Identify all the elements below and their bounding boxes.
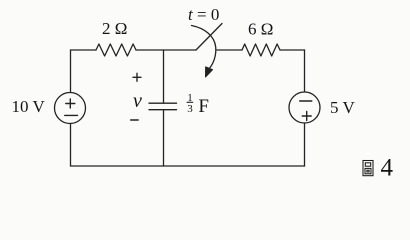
5V minus sign — [300, 100, 312, 102]
wire middle branch lower — [163, 110, 165, 166]
wire right rail lower — [304, 123, 306, 166]
wire top-right segment — [280, 49, 305, 51]
svg-text:3: 3 — [187, 103, 193, 115]
voltage source 5V circle — [289, 92, 320, 123]
capacitor minus polarity mark — [131, 119, 139, 121]
wire top-left segment — [71, 49, 97, 51]
wire switch to 6ohm — [217, 49, 242, 51]
switch blade t=0 — [196, 24, 222, 51]
svg-text:2 Ω: 2 Ω — [102, 19, 127, 38]
figure label CJK tu (drawn) — [363, 161, 373, 176]
svg-text:5 V: 5 V — [330, 98, 355, 117]
resistor R 6ohm — [242, 44, 280, 56]
switch arrowhead — [206, 67, 213, 77]
svg-text:10 V: 10 V — [12, 97, 46, 116]
capacitor top plate — [149, 102, 177, 104]
svg-text:F: F — [198, 96, 209, 117]
wire bottom rail — [71, 165, 305, 167]
svg-text:v: v — [133, 90, 142, 112]
wire middle branch upper — [163, 50, 165, 103]
svg-text:4: 4 — [381, 155, 394, 182]
wire right rail upper — [304, 50, 306, 92]
fraction bar of 1/3 F — [187, 101, 193, 103]
wire top-middle segment — [136, 49, 196, 51]
capacitor bottom plate — [149, 109, 177, 111]
10V minus sign — [65, 114, 78, 116]
capacitor plus polarity mark — [133, 73, 141, 81]
wire left rail upper — [70, 50, 72, 92]
5V plus sign — [302, 112, 311, 121]
voltage source 10V circle — [55, 93, 86, 124]
wire left rail lower — [70, 124, 72, 167]
switch motion arc — [192, 26, 216, 69]
svg-text:6 Ω: 6 Ω — [248, 20, 273, 39]
resistor R 2ohm — [96, 44, 136, 56]
10V plus sign — [66, 99, 75, 108]
svg-text:t = 0: t = 0 — [188, 5, 219, 24]
